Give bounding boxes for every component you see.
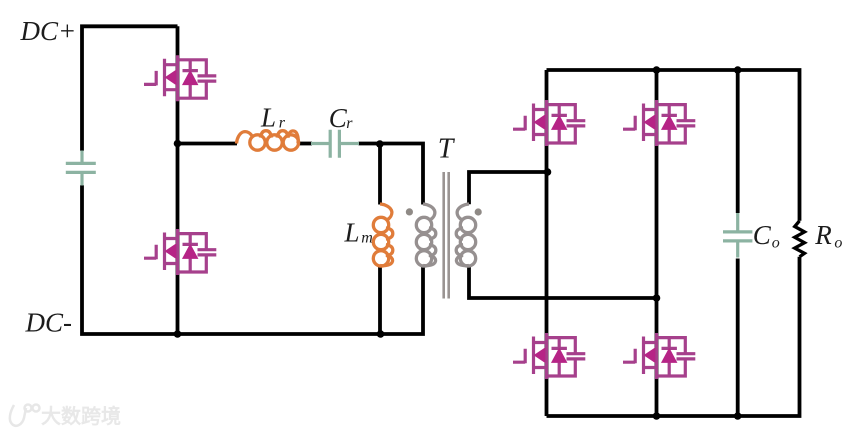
polarity dot primary [406, 208, 413, 215]
wire bridge leg B [655, 70, 659, 416]
wire midpoint to Lr [178, 142, 238, 146]
transistor Q5 (bridge bottom left) [513, 333, 585, 379]
svg-text:大数跨境: 大数跨境 [41, 404, 121, 428]
node midpoint left leg [174, 140, 182, 148]
transistor Q4 (bridge top right) [623, 100, 695, 146]
svg-text:DC-: DC- [25, 308, 73, 338]
wire secondary bottom lead [469, 265, 657, 298]
transistor Q6 (bridge bottom right) [623, 333, 695, 379]
transformer core [444, 172, 449, 299]
wire secondary top lead [469, 172, 548, 204]
svg-text:DC+: DC+ [20, 16, 77, 46]
transistor Q1 (left top) [144, 55, 216, 101]
wire left leg through both MOSFETs [176, 26, 180, 334]
wire left column lower, DC- rail, primary bottom lead [82, 185, 423, 334]
wire Lr to Cr [298, 142, 313, 146]
wire Lm bottom to DC- rail [378, 265, 382, 334]
wire DC+ top rail and left column upper [82, 26, 178, 151]
wire Cr to primary top corner [359, 144, 424, 205]
svg-text:r: r [279, 114, 286, 131]
svg-text:o: o [772, 234, 780, 251]
svg-text:T: T [438, 134, 456, 165]
transformer T secondary winding [456, 204, 476, 266]
inductor Lr [237, 131, 299, 151]
svg-text:m: m [361, 229, 373, 246]
node secondary bottom to leg B [653, 294, 661, 302]
transistor Q2 (left bottom) [144, 229, 216, 275]
transformer T primary winding [416, 204, 436, 266]
node Co top rail [734, 66, 742, 74]
node Cr-Lm junction [376, 140, 384, 148]
inductor Lm [373, 204, 393, 266]
transistor Q3 (bridge top left) [513, 100, 585, 146]
capacitor Cr [311, 130, 359, 158]
node leg B top rail [653, 66, 661, 74]
wire right bottom rail [547, 257, 800, 416]
node leg B bottom rail [653, 412, 661, 420]
svg-text:R: R [814, 220, 832, 250]
node Co bottom rail [734, 412, 742, 420]
node Lm bottom DC- [377, 330, 385, 338]
node left leg DC- [174, 330, 182, 338]
svg-text:L: L [260, 103, 276, 133]
svg-text:L: L [344, 218, 360, 248]
wire node to Lm top [378, 144, 382, 205]
svg-text:o: o [834, 234, 842, 251]
svg-text:C: C [329, 103, 348, 133]
svg-text:r: r [346, 115, 353, 132]
capacitor DC-link [66, 151, 96, 186]
svg-text:C: C [753, 220, 772, 250]
watermark logo [10, 405, 40, 426]
wire Co leg [736, 70, 740, 416]
polarity dot secondary [475, 208, 482, 215]
node secondary top to leg A [544, 168, 552, 176]
wire bridge leg A [545, 70, 549, 416]
wire right top rail [547, 70, 800, 221]
capacitor Co [723, 213, 752, 258]
resistor Ro [795, 221, 805, 257]
